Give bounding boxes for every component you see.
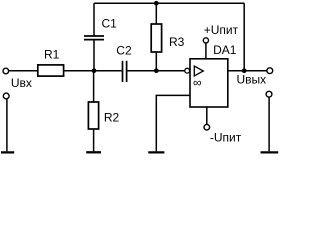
input terminal lower (3, 93, 9, 99)
wire C2 to op-amp input (127, 70, 184, 72)
wire R2 to ground (93, 129, 95, 151)
node junction A (92, 68, 97, 73)
non-inverting input wire (156, 95, 190, 151)
wire C1 to top rail (93, 3, 95, 36)
op-amp U1 box (190, 59, 228, 107)
output terminal upper (267, 68, 273, 74)
output wire (228, 70, 267, 72)
wire R3 to main rail (155, 52, 157, 71)
ground (non-inverting input) (148, 151, 164, 153)
capacitor C2 (122, 61, 124, 82)
output terminal lower (266, 91, 272, 97)
svg-text:C2: C2 (116, 43, 132, 57)
capacitor C1 (84, 39, 104, 41)
resistor R3 (151, 24, 161, 52)
wire lower output terminal to ground (268, 97, 270, 151)
wire +Uпит pin (205, 43, 207, 59)
wire R1 to C2 (64, 70, 122, 72)
op-amp triangle symbol (194, 66, 203, 76)
junction top (R3/top rail) (154, 1, 159, 6)
junction B (154, 68, 159, 73)
wire node up to C1 (93, 40, 95, 70)
+Uпит terminal (203, 38, 208, 43)
wire node down to R2 (93, 71, 95, 102)
svg-text:Uвх: Uвх (11, 76, 32, 90)
wire lower input terminal to ground (6, 99, 8, 151)
resistor R2 (88, 102, 98, 129)
wire -Uпит pin (206, 108, 208, 125)
wire top rail (94, 2, 244, 4)
inversion bubble (185, 68, 190, 73)
ground (input) (1, 151, 14, 153)
svg-text:DA1: DA1 (213, 43, 237, 57)
wire input to R1 (9, 70, 38, 72)
ground (output) (261, 151, 279, 153)
wire top rail to R3 (155, 3, 157, 24)
resistor R1 (38, 65, 64, 76)
junction output (242, 68, 247, 73)
svg-text:-Uпит: -Uпит (210, 131, 242, 145)
ground (R2) (86, 151, 101, 153)
feedback wire (243, 3, 245, 71)
svg-text:R1: R1 (44, 47, 60, 61)
svg-text:∞: ∞ (193, 75, 202, 89)
svg-text:C1: C1 (102, 17, 118, 31)
svg-text:R2: R2 (104, 111, 120, 125)
svg-text:+Uпит: +Uпит (204, 23, 239, 37)
input terminal upper (3, 68, 9, 74)
svg-text:R3: R3 (169, 35, 185, 49)
-Uпит terminal (204, 124, 210, 130)
svg-text:Uвых: Uвых (237, 72, 267, 86)
